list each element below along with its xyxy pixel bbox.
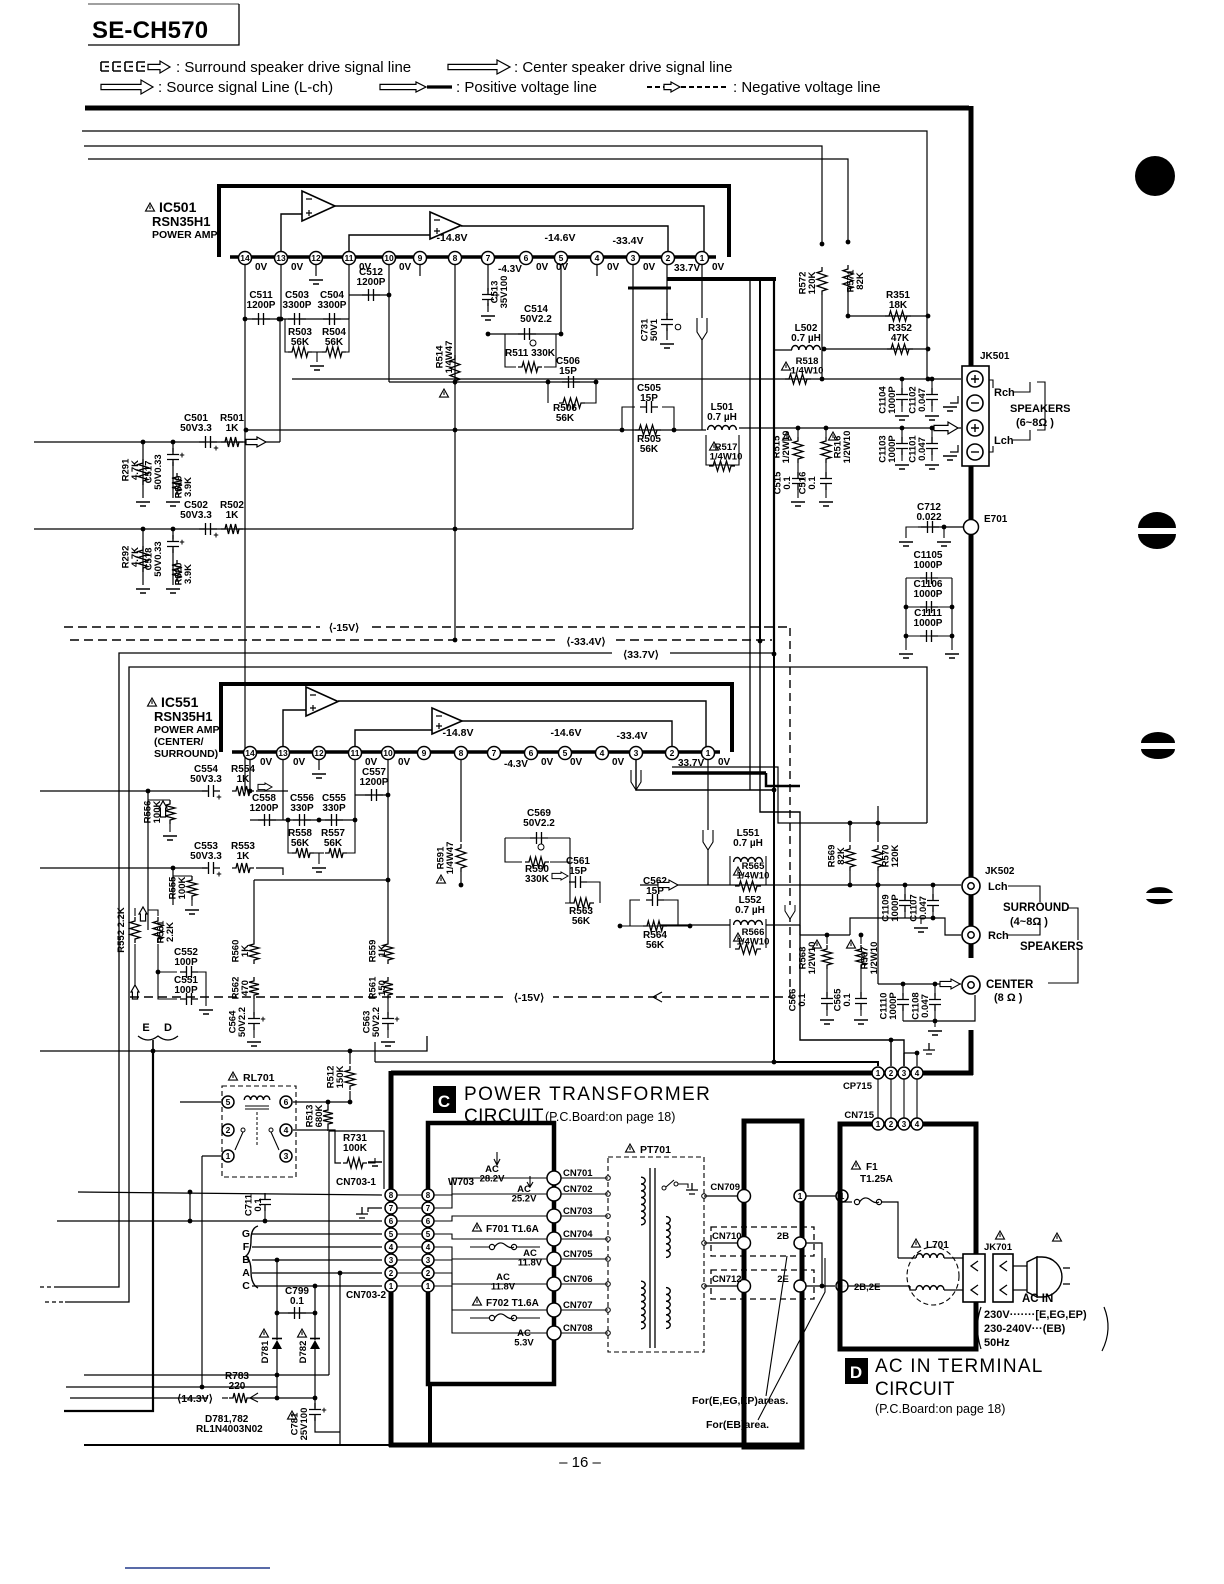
svg-text:50V0.33: 50V0.33 (153, 541, 164, 576)
svg-text:-14.6V: -14.6V (545, 232, 576, 244)
capacitor C781 25V100 (288, 1411, 297, 1419)
svg-text:CN715: CN715 (844, 1110, 874, 1121)
svg-text:4: 4 (915, 1120, 920, 1129)
speaker wire 1 Rch+ (292, 378, 961, 380)
bus -15V lower dashed (130, 996, 792, 998)
svg-text:50V3.3: 50V3.3 (180, 510, 212, 521)
jack JK502 Rch (962, 926, 980, 944)
legend surround symbol (101, 62, 109, 71)
svg-text:0V: 0V (718, 757, 731, 768)
svg-text:RL1N4003N02: RL1N4003N02 (196, 1424, 263, 1435)
svg-text:0V: 0V (293, 757, 306, 768)
svg-text:0V: 0V (541, 757, 554, 768)
svg-text:56K: 56K (324, 838, 343, 849)
AC IN block outline (840, 1124, 976, 1349)
svg-text:SE-CH570: SE-CH570 (92, 17, 208, 44)
svg-text:IC551: IC551 (161, 694, 199, 710)
wire pin4 stub (596, 265, 598, 276)
svg-text:13: 13 (276, 253, 286, 263)
svg-text:RSN35H1: RSN35H1 (152, 214, 211, 229)
legend positive symbol (380, 82, 426, 92)
svg-text:15P: 15P (559, 366, 577, 377)
svg-text:1K: 1K (226, 423, 240, 434)
svg-text:⟨14.3V⟩: ⟨14.3V⟩ (177, 1393, 213, 1405)
svg-text:1000P: 1000P (914, 560, 943, 571)
wire pin1 column IC551 (707, 759, 709, 885)
svg-text:1: 1 (706, 748, 711, 758)
svg-text:2: 2 (666, 253, 671, 263)
svg-text:R511 330K: R511 330K (505, 348, 556, 359)
fuse F702 T1.6A (473, 1297, 482, 1305)
resistor R568 1/2W10 (813, 940, 822, 948)
svg-text:7: 7 (492, 748, 497, 758)
svg-text:For(EB)area.: For(EB)area. (706, 1419, 769, 1431)
svg-text:3: 3 (631, 253, 636, 263)
relay pin 4 (280, 1124, 292, 1136)
IC501 pin row line (230, 255, 716, 259)
svg-text:A: A (242, 1267, 250, 1279)
frame top thick border (85, 106, 969, 111)
svg-text:0.1: 0.1 (807, 476, 818, 490)
resistor R567 1/2W10 (847, 940, 856, 948)
svg-text:Rch: Rch (994, 387, 1015, 399)
svg-text:11.8V: 11.8V (518, 1258, 543, 1269)
svg-text:18K: 18K (889, 300, 908, 311)
relay pin 3 (280, 1150, 292, 1162)
svg-text:35V100: 35V100 (499, 276, 510, 309)
svg-text:2: 2 (426, 1269, 431, 1278)
wire y1374 (84, 1374, 329, 1376)
resistor R517 1/4W10 (706, 435, 739, 465)
IC551 internal wire c (283, 710, 306, 747)
resistor R563 56K (565, 882, 570, 903)
wire pin13 column IC551 (282, 759, 284, 820)
svg-text:⟨-15V⟩: ⟨-15V⟩ (514, 992, 544, 1004)
transformer primary winding 1 (641, 1177, 645, 1225)
svg-text:6: 6 (426, 1217, 431, 1226)
svg-text:1: 1 (798, 1191, 803, 1201)
IC551 label (148, 698, 157, 706)
long wire y1062 to CP715 (375, 1061, 774, 1063)
arrowhead down on branch (785, 905, 795, 919)
svg-text:2: 2 (670, 748, 675, 758)
connector CN715 pins (872, 1118, 884, 1130)
capacitor C731 50V1 (666, 265, 668, 316)
svg-text:F701 T1.6A: F701 T1.6A (486, 1224, 539, 1235)
svg-text:50V0.33: 50V0.33 (153, 454, 164, 489)
diode D782 (298, 1329, 307, 1337)
sketch arrow up 1 (139, 907, 147, 921)
svg-text:0.022: 0.022 (916, 512, 941, 523)
legend negative symbol (647, 86, 668, 88)
svg-text:12: 12 (314, 748, 324, 758)
svg-text:12: 12 (311, 253, 321, 263)
transformer primary winding 2 (641, 1281, 645, 1329)
small arrow near C557 (552, 872, 568, 880)
svg-text:5: 5 (226, 1097, 231, 1107)
svg-text:1: 1 (700, 253, 705, 263)
svg-text:1: 1 (226, 1151, 231, 1161)
svg-text:15P: 15P (569, 866, 587, 877)
svg-text:CN705: CN705 (563, 1249, 593, 1260)
vertical trunk A1 x=750 (749, 279, 751, 790)
svg-text:L701: L701 (926, 1240, 949, 1251)
svg-text:0.7 µH: 0.7 µH (733, 838, 763, 849)
wire pin10 column (388, 265, 390, 382)
svg-text:1200P: 1200P (247, 300, 276, 311)
svg-text:: Surround speaker drive signa: : Surround speaker drive signal line (176, 59, 411, 76)
svg-text:For(E,EG,EP)areas.: For(E,EG,EP)areas. (692, 1395, 788, 1407)
fuse F1 T1.25A (852, 1161, 861, 1169)
svg-text:AC IN: AC IN (1022, 1293, 1053, 1305)
svg-text:AC IN TERMINAL: AC IN TERMINAL (875, 1356, 1043, 1377)
riser R501 output (279, 319, 281, 442)
svg-text:1: 1 (426, 1282, 431, 1291)
svg-text:330P: 330P (290, 803, 314, 814)
svg-text:+: + (260, 1014, 265, 1024)
wire caps to Rch (893, 918, 961, 935)
wire pin11 column (348, 265, 350, 319)
svg-text:JK501: JK501 (980, 351, 1010, 362)
svg-text:25.2V: 25.2V (512, 1194, 537, 1205)
speaker wire 2 Lch+ (739, 427, 961, 429)
lower frame outer / 33.7V rail (57, 653, 776, 1287)
svg-text:5: 5 (389, 1230, 394, 1239)
transformer PT701 dashed box (608, 1157, 704, 1352)
wire pin12 stub IC551 (318, 759, 320, 770)
frame right thick border upper (969, 106, 974, 958)
svg-text:120K: 120K (807, 272, 818, 295)
svg-text:2B,2E: 2B,2E (854, 1282, 880, 1293)
wires between CN703 connector pins (396, 1194, 422, 1196)
wire CN703 pin8 left (78, 1192, 382, 1195)
svg-text:50V3.3: 50V3.3 (190, 774, 222, 785)
svg-text:0V: 0V (255, 262, 268, 273)
svg-text:SURROUND: SURROUND (1003, 902, 1069, 914)
svg-text:5: 5 (563, 748, 568, 758)
svg-text:Lch: Lch (994, 435, 1014, 447)
wall right pins (794, 1190, 806, 1202)
svg-text:0V: 0V (612, 757, 625, 768)
svg-text:(P.C.Board:on page 18): (P.C.Board:on page 18) (545, 1110, 675, 1124)
svg-text:Rch: Rch (988, 930, 1009, 942)
svg-text:56K: 56K (646, 940, 665, 951)
svg-text:-4.3V: -4.3V (504, 759, 528, 770)
svg-text:0V: 0V (399, 262, 412, 273)
legend center symbol (448, 60, 510, 74)
resistor R506 56K (547, 382, 549, 403)
svg-text:CP715: CP715 (843, 1081, 873, 1092)
svg-text:– 16 –: – 16 – (559, 1454, 601, 1471)
svg-text:220: 220 (229, 1381, 246, 1392)
top rail 1 (82, 131, 927, 379)
AC plug (1053, 1233, 1062, 1241)
svg-text:-14.8V: -14.8V (443, 727, 474, 739)
transformer secondary winding 2 (666, 1288, 670, 1329)
svg-text:1: 1 (876, 1120, 881, 1129)
wire pin14 column (244, 265, 246, 791)
wire B junction riser D781 (275, 1258, 280, 1263)
svg-text:56K: 56K (556, 413, 575, 424)
svg-text:25V100: 25V100 (299, 1408, 310, 1441)
jack JK501 minus Rch (967, 395, 983, 411)
svg-text:0V: 0V (260, 757, 273, 768)
svg-text:3: 3 (426, 1256, 431, 1265)
PT narrow connector wall (744, 1121, 802, 1447)
dashed box CN710 2B (711, 1227, 814, 1256)
legend source symbol (101, 80, 153, 94)
wire nested to R570 (672, 767, 850, 823)
wire C junction riser D782 (313, 1284, 318, 1289)
svg-text:SPEAKERS: SPEAKERS (1010, 403, 1071, 415)
svg-text:1000P: 1000P (914, 618, 943, 629)
connector CN709 (738, 1190, 751, 1203)
relay pin 6 (280, 1096, 292, 1108)
transformer terminal circles (606, 1176, 611, 1181)
branch to CP715 pin2 (890, 1040, 892, 1066)
svg-text:T1.25A: T1.25A (860, 1174, 893, 1185)
svg-text:47K: 47K (891, 333, 910, 344)
svg-text:E701: E701 (984, 514, 1008, 525)
arrowhead on lower bus (653, 992, 662, 1002)
wire pin3 down arrow (631, 770, 641, 790)
IC501 label (146, 203, 155, 211)
svg-text:1200P: 1200P (250, 803, 279, 814)
rail 33.7V (612, 647, 668, 659)
svg-text:E: E (142, 1022, 149, 1034)
svg-text:1: 1 (389, 1282, 394, 1291)
svg-text:JK502: JK502 (985, 866, 1015, 877)
svg-text:11: 11 (351, 748, 360, 758)
svg-text:1/2W10: 1/2W10 (842, 431, 853, 464)
op-amp U1b IC501 (430, 212, 461, 239)
svg-text:-14.8V: -14.8V (437, 232, 468, 244)
svg-text:100K: 100K (343, 1143, 368, 1154)
svg-text:4: 4 (426, 1243, 431, 1252)
svg-text:1000P: 1000P (888, 992, 899, 1020)
top rail 2 (84, 146, 822, 244)
relay pin 2 (222, 1124, 234, 1136)
svg-text:C: C (438, 1092, 450, 1111)
svg-text:1/2W10: 1/2W10 (781, 431, 792, 464)
wire relay pin1 left (202, 1155, 221, 1157)
svg-text:2: 2 (889, 1120, 894, 1129)
svg-text:2: 2 (226, 1125, 231, 1135)
svg-text:F702 T1.6A: F702 T1.6A (486, 1298, 539, 1309)
resistor R515 1/2W10 (783, 432, 792, 440)
svg-text:R552 2.2K: R552 2.2K (116, 907, 127, 953)
svg-text:+: + (179, 537, 184, 547)
dashed box CN712 2E (711, 1270, 814, 1299)
svg-text:0V: 0V (556, 262, 569, 273)
wires W703 to CN701-708 (434, 1178, 547, 1195)
bus -15V dashed (64, 626, 788, 628)
connector JK701 (996, 1231, 1005, 1239)
wire CN703 pin6 left (57, 1220, 382, 1222)
relay RL701 label (229, 1072, 238, 1080)
svg-text:0V: 0V (291, 262, 304, 273)
svg-text:0.1: 0.1 (782, 476, 793, 490)
svg-text:0V: 0V (607, 262, 620, 273)
svg-text:1200P: 1200P (357, 277, 386, 288)
lower frame inner (65, 667, 927, 1302)
riser x190 (189, 1192, 191, 1221)
ground hook JK501 minus1 (950, 396, 958, 403)
svg-text:50V2.2: 50V2.2 (520, 314, 552, 325)
svg-text:0V: 0V (712, 262, 725, 273)
transformer secondary winding 1 (666, 1217, 670, 1258)
brace GFBAC (246, 1226, 258, 1288)
wire pin13 column (280, 265, 282, 319)
svg-text:6: 6 (524, 253, 529, 263)
svg-text:: Positive voltage line: : Positive voltage line (456, 79, 597, 96)
svg-text:CIRCUIT: CIRCUIT (875, 1379, 955, 1400)
IC501 internal wire a (335, 206, 704, 252)
svg-text:0.047: 0.047 (918, 896, 929, 920)
wire pin12 stub (315, 265, 317, 276)
IC501 internal wire c (281, 214, 302, 252)
svg-text:9: 9 (422, 748, 427, 758)
wire pin3 right IC551 (636, 759, 774, 790)
svg-text:: Center speaker drive signal: : Center speaker drive signal line (514, 59, 732, 76)
resistor R565 1/4W10 (729, 856, 731, 885)
registration mark split circle 1 (1138, 512, 1176, 528)
input wire IC551 lower (40, 867, 207, 869)
svg-text:2B: 2B (777, 1231, 789, 1242)
svg-text:2: 2 (389, 1269, 394, 1278)
CP715 top bracket (904, 1053, 917, 1066)
IC501 pins 14..1 (239, 252, 252, 265)
jack JK501 plus Rch (967, 371, 983, 387)
signal arrowhead down IC551 pin1 (703, 830, 713, 850)
node E701 (918, 526, 963, 528)
long wire y=430 to L501 (246, 429, 706, 431)
svg-text:50V2.2: 50V2.2 (237, 1007, 248, 1037)
svg-text:3: 3 (634, 748, 639, 758)
svg-text:+: + (216, 869, 221, 879)
svg-text:-14.6V: -14.6V (551, 727, 582, 739)
vertical trunk B x=774 (773, 279, 775, 654)
input wire 1 L-ch (34, 441, 280, 443)
svg-text:1200P: 1200P (360, 777, 389, 788)
svg-text:14: 14 (240, 253, 250, 263)
svg-text:G: G (242, 1228, 250, 1240)
svg-text:0.1: 0.1 (842, 993, 853, 1007)
svg-text:RSN35H1: RSN35H1 (154, 709, 213, 724)
wire pin1 column (701, 265, 703, 430)
svg-text:3300P: 3300P (318, 300, 347, 311)
svg-text:3.9K: 3.9K (183, 477, 194, 497)
svg-text:14: 14 (245, 748, 255, 758)
svg-text:B: B (242, 1254, 250, 1266)
IC551 pin row line (232, 750, 720, 754)
relay pin 5 (222, 1096, 234, 1108)
svg-text:50V2.2: 50V2.2 (523, 818, 555, 829)
wire 2B 2E join (806, 1243, 822, 1286)
wire A junction riser (338, 1271, 343, 1276)
vertical x202 (201, 1156, 203, 1387)
svg-text:50V3.3: 50V3.3 (190, 851, 222, 862)
PT block bottom border (389, 1443, 803, 1448)
signal arrow Lch surround (658, 880, 678, 890)
svg-text:33.7V: 33.7V (674, 263, 700, 274)
svg-text:3.9K: 3.9K (183, 564, 194, 584)
svg-text:56K: 56K (572, 916, 591, 927)
svg-text:0.7 µH: 0.7 µH (791, 333, 821, 344)
svg-text:0V: 0V (570, 757, 583, 768)
svg-text:3300P: 3300P (283, 300, 312, 311)
svg-text:1/4W10: 1/4W10 (791, 366, 824, 377)
svg-text:PT701: PT701 (640, 1144, 671, 1156)
svg-text:2: 2 (889, 1069, 894, 1078)
op-amp U2b IC551 (432, 708, 462, 734)
connector W703 pins (422, 1189, 434, 1201)
wire pin14 column IC551 (249, 759, 251, 791)
svg-text:1K: 1K (237, 851, 251, 862)
svg-text:-33.4V: -33.4V (613, 235, 644, 247)
svg-text:CIRCUIT: CIRCUIT (464, 1106, 544, 1127)
thick stub pin3 left (628, 287, 671, 290)
svg-text:4: 4 (595, 253, 600, 263)
svg-text:CN710: CN710 (712, 1231, 742, 1242)
svg-text:3: 3 (389, 1256, 394, 1265)
frame bottom thick border (391, 1071, 973, 1076)
signal arrow R501 (246, 437, 266, 447)
svg-text:4: 4 (389, 1243, 394, 1252)
callout line E EG EP (766, 1256, 787, 1396)
svg-text:(4~8Ω ): (4~8Ω ) (1010, 916, 1048, 928)
svg-text:CN709: CN709 (710, 1182, 740, 1193)
wire R503 R504 loop (285, 319, 288, 352)
IC501 internal wire b (461, 226, 668, 252)
sketch arrow R554 out (258, 783, 272, 791)
jack JK501 minus Lch (967, 444, 983, 460)
vertical x329 (328, 1131, 330, 1375)
svg-text:RL701: RL701 (243, 1072, 275, 1084)
PT inner board rect (428, 1123, 554, 1384)
svg-text:CN703-1: CN703-1 (336, 1177, 376, 1188)
svg-text:3: 3 (284, 1151, 289, 1161)
svg-text:4: 4 (284, 1125, 289, 1135)
svg-text:82K: 82K (855, 272, 866, 290)
svg-text:CN703: CN703 (563, 1206, 593, 1217)
transformer top contact (662, 1186, 666, 1190)
svg-text:-4.3V: -4.3V (498, 264, 522, 275)
svg-text:(P.C.Board:on page 18): (P.C.Board:on page 18) (875, 1402, 1005, 1416)
svg-text:F: F (243, 1241, 250, 1253)
section C square (433, 1086, 456, 1113)
svg-text:D: D (850, 1363, 862, 1382)
top rail 3 (88, 159, 848, 242)
resistor R516 1/2W10 (829, 432, 838, 440)
svg-text:15P: 15P (640, 393, 658, 404)
svg-text:330K: 330K (525, 874, 550, 885)
relay RL701 dashed box (222, 1086, 296, 1177)
resistor R566 1/4W10 (729, 919, 731, 948)
capacitor C513 35V100 (487, 265, 489, 291)
ground hook JK501 minus2 (950, 445, 958, 452)
wire relay pin5 left (180, 1101, 221, 1103)
IC551 block outline (221, 684, 732, 752)
svg-text:⟨-33.4V⟩: ⟨-33.4V⟩ (566, 636, 605, 648)
svg-text:8: 8 (453, 253, 458, 263)
svg-text:6: 6 (284, 1097, 289, 1107)
svg-text:0.7 µH: 0.7 µH (735, 905, 765, 916)
svg-text:50V3.3: 50V3.3 (180, 423, 212, 434)
svg-text:-33.4V: -33.4V (617, 730, 648, 742)
svg-text:POWER TRANSFORMER: POWER TRANSFORMER (464, 1084, 711, 1105)
wire pin5 column (560, 265, 562, 334)
